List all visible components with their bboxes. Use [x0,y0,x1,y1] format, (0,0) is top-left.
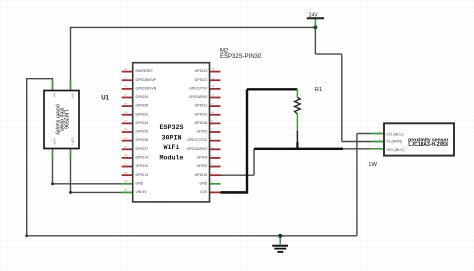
svg-text:EN/RESET: EN/RESET [136,69,154,73]
svg-text:GPIO35: GPIO35 [136,104,149,108]
svg-text:GPIO25: GPIO25 [136,130,149,134]
svg-text:GPIO5: GPIO5 [197,130,208,134]
svg-text:GPIO18: GPIO18 [195,121,208,125]
svg-text:GPIO17/TX2: GPIO17/TX2 [187,138,207,142]
svg-text:GPIO12: GPIO12 [136,164,149,168]
svg-text:OUT+: OUT+ [71,137,75,145]
svg-text:GPIO13: GPIO13 [136,173,149,177]
svg-text:GPIO4: GPIO4 [197,156,208,160]
svg-text:GPIO26: GPIO26 [136,138,149,142]
svg-text:VIN 5V: VIN 5V [136,190,148,194]
svg-text:GPIO34: GPIO34 [136,95,149,99]
svg-text:GPIO33: GPIO33 [136,121,149,125]
svg-text:IN-: IN- [53,94,57,98]
svg-text:GND: GND [136,181,144,185]
svg-text:GPIO27: GPIO27 [136,147,149,151]
svg-text:GPIO15: GPIO15 [195,173,208,177]
svg-text:SIG (BLK): SIG (BLK) [386,147,405,152]
svg-text:LJC18A3-H-Z/BX: LJC18A3-H-Z/BX [408,142,448,148]
svg-text:VI (BRN): VI (BRN) [386,138,403,143]
svg-text:OUT-: OUT- [53,138,57,145]
svg-text:GPIO36/SVP: GPIO36/SVP [136,78,157,82]
svg-text:VO (BLU): VO (BLU) [386,131,404,136]
svg-text:R1: R1 [315,87,322,93]
svg-text:24V: 24V [309,13,319,19]
svg-text:30PIN: 30PIN [161,135,181,143]
svg-text:IN+: IN+ [71,94,75,99]
svg-text:GPIO2: GPIO2 [197,164,208,168]
svg-text:3.3V: 3.3V [200,190,208,194]
svg-text:U1: U1 [101,95,109,101]
svg-text:WiFi: WiFi [163,144,179,152]
svg-text:GPIO19: GPIO19 [195,112,208,116]
svg-text:GPIO22: GPIO22 [195,78,208,82]
svg-text:power supply: power supply [55,104,61,135]
svg-text:GPIO21: GPIO21 [195,104,208,108]
svg-text:1W: 1W [368,162,377,168]
svg-text:GPIO32: GPIO32 [136,112,149,116]
svg-text:ESP32S-PIN30: ESP32S-PIN30 [220,54,262,60]
svg-text:GND: GND [200,181,208,185]
svg-text:GPIO14: GPIO14 [136,156,149,160]
svg-text:ESP32S: ESP32S [159,124,183,132]
svg-text:GPIO39/SVN: GPIO39/SVN [136,86,157,90]
svg-text:GPIO1/TX0: GPIO1/TX0 [189,86,207,90]
svg-text:GPIO3/RX0: GPIO3/RX0 [189,95,208,99]
svg-text:GPIO16/RX2: GPIO16/RX2 [187,147,207,151]
svg-text:GPIO23: GPIO23 [195,69,208,73]
svg-text:Module: Module [159,155,183,163]
